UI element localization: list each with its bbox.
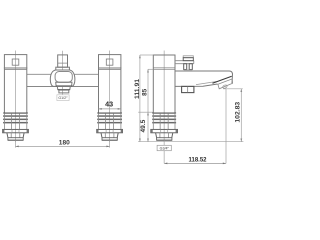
svg-text:85: 85 — [142, 88, 149, 96]
svg-text:49.5: 49.5 — [140, 119, 147, 132]
svg-text:G3/4″: G3/4″ — [160, 147, 170, 151]
svg-text:G1/2″: G1/2″ — [58, 96, 68, 100]
svg-text:180: 180 — [59, 140, 70, 147]
svg-text:102.83: 102.83 — [234, 102, 241, 123]
svg-text:111.91: 111.91 — [134, 79, 141, 99]
svg-text:43: 43 — [105, 100, 113, 109]
svg-text:118.52: 118.52 — [188, 157, 207, 163]
